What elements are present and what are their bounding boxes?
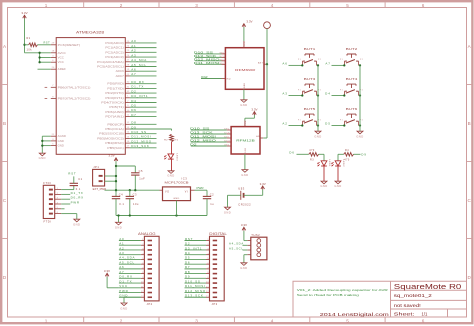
wire BUT1 to gnd rail [317,64,319,66]
svg-text:11: 11 [206,286,209,288]
svg-text:GND: GND [173,198,179,200]
resistor R2 470 [164,134,179,142]
svg-text:GND: GND [58,139,64,143]
svg-text:470: 470 [344,158,350,161]
svg-text:9: 9 [208,277,210,279]
svg-text:D3_INT1: D3_INT1 [131,94,148,98]
svg-text:D11_MOSI: D11_MOSI [190,135,216,139]
svg-text:5: 5 [346,318,349,323]
svg-text:3.3V: 3.3V [241,223,247,227]
svg-text:IRQ: IRQ [226,78,231,80]
JP2 pin 4 net A3 [119,251,152,256]
ground JP2 [121,303,127,306]
svg-text:JP3: JP3 [212,302,218,306]
resistor R3 470 [309,149,319,161]
JP2 pin 10 net D1_TX [119,279,152,284]
svg-text:RST: RST [44,41,51,45]
svg-text:BUT6: BUT6 [346,107,358,111]
JP3 pin 11 net D11_MOSI [185,284,218,289]
svg-text:A4_SDA: A4_SDA [119,256,135,260]
svg-text:D13_SCK: D13_SCK [194,54,217,58]
wire 3.3V to VCC row [107,277,119,288]
wire net D12_MISO to RFM69W [194,57,226,61]
pushbutton BUT5 [298,107,321,125]
svg-text:BUT3: BUT3 [304,77,316,81]
node junction at R1 [23,44,25,46]
svg-text:A6: A6 [131,68,136,72]
svg-text:A5_SCL: A5_SCL [131,63,146,67]
IC1 pin PB3(MOSI/OC2) / net D11_MOSI [97,135,156,141]
svg-text:10k: 10k [27,49,33,52]
svg-text:VI: VI [185,190,188,193]
svg-text:A3: A3 [119,251,124,255]
JP3 pin 9 net D9 [185,275,218,280]
svg-text:A5_SCL: A5_SCL [119,260,135,264]
svg-text:U$3: U$3 [238,187,244,191]
wire AGND/GND bus [41,136,51,153]
svg-text:D0_RX: D0_RX [119,275,132,279]
svg-text:6: 6 [208,263,210,265]
svg-text:GND: GND [58,144,64,148]
svg-text:D3_INT1: D3_INT1 [185,246,202,250]
svg-text:PC4(ADC4/SDA): PC4(ADC4/SDA) [97,60,124,64]
svg-text:D7: D7 [131,113,136,117]
svg-text:AVCC: AVCC [58,51,66,55]
wire net A2 to BUT5 [282,122,303,127]
wire R3 to LED1 [319,154,324,160]
svg-text:PC3(ADC3): PC3(ADC3) [105,55,124,59]
wire D6 to R3 [297,153,309,155]
svg-text:VO: VO [165,190,169,193]
svg-text:470: 470 [309,149,315,152]
wire R4 to LED2 [338,154,344,160]
wire JP2 GND down [124,297,141,303]
svg-text:R3: R3 [310,158,314,161]
svg-text:D1_TX: D1_TX [71,191,84,195]
svg-text:6: 6 [422,3,425,8]
RFM12B ANT pin [256,135,267,138]
IC1 pin PC5(ADC5/SCL) / net A5_SCL [97,63,156,69]
svg-text:A0: A0 [119,237,124,241]
svg-text:10: 10 [141,282,144,284]
svg-text:P1: P1 [298,89,301,91]
svg-text:D13_SCK: D13_SCK [190,131,213,135]
wire 3.3V down [24,19,26,53]
antenna pad circle [264,22,271,29]
svg-text:R1: R1 [27,37,31,40]
svg-text:PD1(TXD): PD1(TXD) [107,86,124,90]
svg-text:13: 13 [206,296,209,298]
wire VCC bus vertical [39,53,41,62]
svg-text:GND: GND [73,223,80,227]
svg-text:PC2(ADC2): PC2(ADC2) [105,50,124,54]
regulator pins [160,189,163,191]
svg-text:3.3V: 3.3V [246,20,252,24]
svg-text:5: 5 [142,258,144,260]
svg-text:6: 6 [142,263,144,265]
RFM69W GND pin [244,82,246,99]
wire LED3 to ground [171,159,173,170]
svg-text:12: 12 [141,291,144,293]
JP3 pin 2 net D2 [185,242,218,247]
IC1 pin AGND [51,134,66,138]
JP2 pin 2 net A1 [119,242,152,247]
wire battery plus to 3.3V [244,189,263,195]
svg-text:D2: D2 [131,89,136,93]
op IC1 ATMEGA328 box [56,38,125,155]
IC1 pin PC0(ADC0) / net A0 [105,39,156,45]
svg-text:P1: P1 [340,59,343,61]
JP2 pin 7 net A6 [119,265,152,270]
supply 3.3V (battery) [261,186,265,189]
wire BUT2 to gnd rail [359,64,361,66]
svg-text:A2: A2 [282,122,287,126]
capacitor C4 0.1 [112,192,125,215]
pushbutton BUT3 [298,77,321,95]
JP3 pin 7 net D7 [185,265,218,270]
svg-text:3.3V: 3.3V [108,154,114,158]
wire net A6 to BUT1 [282,61,303,66]
wire antenna vertical [266,29,268,138]
svg-text:P1: P1 [298,119,301,121]
connector THS2 [247,233,267,260]
svg-text:D6: D6 [289,150,294,154]
svg-text:SDO: SDO [224,141,230,143]
svg-text:A6: A6 [119,265,124,269]
capacitor C1 0.1 on DTR/RST [61,176,82,190]
svg-text:P1: P1 [340,119,343,121]
IC1 pin PB4(MISO) / net D12_MISO [105,139,156,145]
svg-text:PC6(/RESET): PC6(/RESET) [58,43,81,47]
connector FTDI [43,181,61,223]
IC1 pin PD1(TXD) / net D1_TX [107,85,156,91]
svg-text:D4: D4 [185,251,190,255]
svg-text:PB5(SCK): PB5(SCK) [107,146,124,150]
ground THS2 [241,263,247,266]
JP3 pin 12 net D12_MISO [185,289,218,294]
svg-text:1/1: 1/1 [422,311,428,316]
wire net D2 to RFM12B [190,143,231,147]
svg-text:D5: D5 [325,122,331,126]
IC1 pin PD0(RXD) / net D0_RX [107,80,156,86]
wire R4 to D9 [354,153,361,155]
svg-text:D13_SCK: D13_SCK [131,144,149,148]
wire net D13_SCK to RFM12B [190,131,231,135]
svg-text:P2: P2 [360,89,363,91]
svg-text:D0_RX: D0_RX [71,196,84,200]
supply 3.3V (THS2) [242,227,246,230]
svg-text:FTDI: FTDI [43,181,51,185]
IC1 pin PB2(SS/OC1B) / net D10_SS [99,130,156,136]
wire D9 net down [171,129,173,131]
wire 3.3V horizontal rail [105,189,160,191]
svg-text:D10_SS: D10_SS [131,130,146,134]
IC1 pin PC6(/RESET) [51,43,81,47]
svg-text:SEL: SEL [220,52,226,54]
svg-text:PD2(INT0): PD2(INT0) [105,91,124,95]
wire 3.3V vertical rail [115,161,117,196]
JP3 pin 1 net RST [185,237,218,242]
svg-text:A1: A1 [131,44,136,48]
svg-text:LED2: LED2 [342,160,344,168]
svg-text:D13_SCK: D13_SCK [185,294,204,298]
connector JP1 EXT_PWR [93,165,107,191]
IC1 pin PB7(XTAL2/TOSC2) [45,97,91,101]
svg-text:D8: D8 [185,270,190,274]
svg-text:A7: A7 [131,72,136,76]
wire net A7 to BUT2 [325,61,345,66]
svg-text:D10_SS: D10_SS [190,127,210,131]
svg-text:sq_mote01_2: sq_mote01_2 [394,293,433,298]
svg-text:GND: GND [115,226,122,230]
svg-text:5: 5 [208,258,210,260]
capacitor C5 1uF [131,166,145,190]
svg-text:C4: C4 [119,192,123,196]
JP2 pin 6 net A5_SCL [119,260,152,265]
JP2 pin 5 net A4_SDA [119,256,152,261]
svg-text:BUT2: BUT2 [346,47,358,51]
svg-text:3: 3 [195,318,198,323]
svg-text:7: 7 [142,267,144,269]
IC1 pin AVCC [51,51,66,55]
module U1 RFM69W box [225,48,264,90]
svg-text:ANT: ANT [256,135,261,138]
svg-text:GND: GND [334,184,341,188]
svg-text:3: 3 [195,3,198,8]
wire net A3 to BUT3 [282,92,303,97]
svg-text:SCK: SCK [220,56,226,58]
capacitor C3 10u [126,190,139,215]
JP2 pin 11 net VCC [119,284,152,289]
svg-text:GND: GND [39,156,46,160]
svg-text:PC5(ADC5/SCL): PC5(ADC5/SCL) [97,65,124,69]
RFM69W ANT pin [258,61,268,65]
svg-text:PD0(RXD): PD0(RXD) [107,82,124,86]
svg-text:2: 2 [208,244,210,246]
svg-text:1uF: 1uF [139,176,145,180]
capacitor C2 1u [203,190,214,215]
svg-text:D5: D5 [185,256,190,260]
svg-text:2: 2 [57,193,59,195]
svg-text:8: 8 [142,272,144,274]
button column2 gnd rail [359,65,361,131]
svg-text:2: 2 [120,3,123,8]
svg-text:D6: D6 [185,260,190,264]
frame row labels right [468,44,472,280]
svg-text:IC3: IC3 [182,177,188,181]
pushbutton BUT1 [298,47,321,65]
wire net D11_MOSI to RFM12B [190,135,231,139]
IC1 pin PB0(ICP) / net D8 [107,121,156,127]
frame row labels left [3,44,7,280]
svg-text:AREF: AREF [58,67,67,71]
svg-text:A2: A2 [131,49,136,53]
svg-text:9: 9 [142,277,144,279]
svg-text:GND: GND [356,135,363,139]
svg-text:BUT5: BUT5 [304,107,316,111]
svg-text:EXT_PWR: EXT_PWR [93,187,107,191]
svg-text:10: 10 [206,282,209,284]
svg-text:PB3(MOSI/OC2): PB3(MOSI/OC2) [97,136,124,140]
svg-text:3.3V: 3.3V [260,182,266,186]
svg-text:SDI: SDI [220,63,225,65]
svg-text:A5_SCL: A5_SCL [229,246,244,250]
svg-text:C5: C5 [139,169,143,173]
svg-text:4: 4 [208,253,210,255]
wire ground rail [116,215,207,217]
svg-text:D9: D9 [131,125,136,129]
svg-text:MCP1703CB: MCP1703CB [165,180,189,184]
pushbutton BUT6 [340,107,363,125]
svg-text:D7: D7 [185,265,190,269]
svg-text:A6: A6 [282,61,287,65]
wire R2 to LED3 [171,142,173,155]
wire net D13_SCK to RFM69W [194,54,226,58]
svg-text:2: 2 [120,318,123,323]
svg-text:4: 4 [271,3,274,8]
IC1 pin PB6(XTAL1/TOSC1) [45,85,91,89]
svg-text:PD4(T0/XCK): PD4(T0/XCK) [101,101,124,105]
svg-text:3: 3 [208,249,210,251]
supply 3.3V (regulator output) [114,158,118,161]
svg-text:2014 LensDigital.com: 2014 LensDigital.com [320,312,389,317]
svg-text:PC0(ADC0): PC0(ADC0) [105,41,124,45]
IC1 pin PC2(ADC2) / net A2 [105,49,156,55]
resistor R1 10k [25,37,51,51]
IC1 pin PD5(T1) / net D5 [109,104,156,110]
wire LED1 to ground [323,166,325,181]
button column1 gnd rail [317,65,319,131]
svg-text:8: 8 [208,272,210,274]
svg-text:3.3V: 3.3V [251,107,257,111]
svg-text:V01_2: Added Decoupling capaci: V01_2: Added Decoupling capacitor for AV… [297,288,389,292]
svg-text:Send to iTead for PCB making: Send to iTead for PCB making [297,293,359,297]
wire AVCC row [25,52,51,54]
supply 3.3V (RFM69W) [242,24,246,27]
supply 3.3V (top left) [23,15,27,18]
svg-text:1: 1 [57,188,59,190]
svg-text:D4: D4 [325,92,331,96]
ground LED1 [321,181,327,184]
svg-text:D9: D9 [361,152,366,156]
wire BUT4 to gnd rail [359,94,361,96]
IC1 pin PD2(INT0) / net D2 [105,89,156,95]
IC1 pin PD6(AIN0) / net D6 [105,108,156,114]
JP2 pin 3 net A2 [119,246,152,251]
svg-text:D1_TX: D1_TX [119,279,132,283]
svg-text:A4_SDA: A4_SDA [131,58,147,62]
IC1 pin PD7(AIN1) / net D7 [105,113,156,119]
IC1 pin ADC7 / net A7 [116,72,157,78]
svg-text:A7: A7 [325,61,330,65]
svg-text:SDI: SDI [224,137,229,139]
svg-text:GND: GND [320,184,327,188]
ground RFM12B [242,170,248,173]
svg-text:3: 3 [142,249,144,251]
svg-text:D2: D2 [190,143,197,147]
RFM12B GND pin [245,147,247,169]
ground RFM69W [241,100,247,103]
IC1 pin VCC [51,55,64,59]
wire 3.3V to THS2 VCC [244,231,247,241]
svg-text:ADC7: ADC7 [116,74,125,78]
svg-text:ANT: ANT [258,61,263,64]
svg-text:470: 470 [173,140,178,142]
svg-text:D4: D4 [131,99,136,103]
svg-text:4: 4 [142,253,144,255]
svg-text:CR2022: CR2022 [238,203,251,207]
supply 3.3V (RFM12B) [253,112,257,115]
svg-text:VCC: VCC [58,56,64,60]
IC1 pin GND [51,144,64,148]
ground below IC1 left [39,153,45,156]
svg-text:SDO: SDO [220,59,226,61]
wire net D5 to BUT6 [325,122,345,127]
svg-text:PD3(INT1): PD3(INT1) [105,96,124,100]
svg-text:B: B [468,121,471,126]
wires JP1 to rail [105,175,116,177]
LED3 [165,154,178,162]
svg-text:D8: D8 [131,121,136,125]
svg-text:PWR: PWR [119,289,128,293]
svg-text:12: 12 [206,291,209,293]
wire THS2 GND [244,255,247,263]
svg-text:PB1(OC1A): PB1(OC1A) [105,127,124,131]
svg-text:5: 5 [57,207,59,209]
wire FTDI GND [61,214,77,220]
svg-text:B: B [3,121,6,126]
svg-text:PD7(AIN1): PD7(AIN1) [105,115,124,119]
svg-text:D1_TX: D1_TX [131,85,144,89]
frame row ticks [2,85,471,239]
svg-text:LED3: LED3 [175,154,177,162]
svg-text:A0: A0 [131,39,136,43]
JP3 pin 5 net D5 [185,256,218,261]
IC1 pin PB5(SCK) / net D13_SCK [107,144,156,150]
IC1 pin ADC6 / net A6 [116,68,157,74]
IC1 pin PC4(ADC4/SDA) / net A4_SDA [97,58,156,64]
svg-text:AGND: AGND [58,134,66,138]
JP2 pin 13 net GND [119,294,152,299]
JP2 pin 1 net A0 [119,237,152,242]
svg-text:THS2: THS2 [251,233,260,237]
svg-text:A4_SDA: A4_SDA [229,242,244,246]
svg-text:GND: GND [245,147,247,153]
ground buttons col2 [357,131,363,134]
svg-text:A7: A7 [119,270,124,274]
RFM69W VCC pin and 3.3V [244,27,246,48]
frame column labels bottom [45,318,425,323]
wire net D11_MOSI to RFM69W [194,61,226,65]
svg-text:A2: A2 [119,246,124,250]
svg-text:C1: C1 [78,177,82,181]
wire A5_SCL to THS2 [243,249,248,251]
svg-text:GND: GND [240,103,247,107]
svg-text:D12_MISO: D12_MISO [194,57,220,61]
svg-text:GND: GND [120,306,127,310]
svg-text:R2: R2 [164,140,168,142]
svg-text:1: 1 [208,239,210,241]
svg-text:PB0(ICP): PB0(ICP) [107,122,124,126]
svg-text:ANALOG: ANALOG [138,232,156,236]
wire net D4 to BUT4 [325,92,345,97]
svg-text:VCC: VCC [58,60,64,64]
JP3 pin 4 net D4 [185,251,218,256]
module U2 RFM12B box [231,127,260,154]
junction dots VCC bus [38,52,40,54]
svg-text:D10_SS: D10_SS [194,50,214,54]
svg-text:SquareMote R0: SquareMote R0 [394,282,462,291]
